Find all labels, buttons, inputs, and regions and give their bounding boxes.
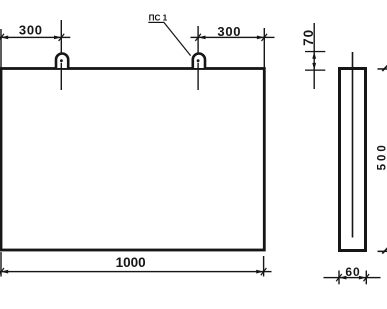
slash right of dim 300 right [262, 34, 268, 41]
slash right of dim 60 [364, 274, 370, 281]
extension line top-right corner [264, 28, 265, 68]
dim 70 arrow up [312, 52, 316, 59]
label ПС 1 underline [148, 22, 164, 23]
dim 70 tick top [305, 51, 325, 52]
slash left of dim 300 left [0, 34, 4, 41]
extension line top-left corner [0, 29, 1, 68]
svg-text:500: 500 [376, 142, 387, 170]
arrow left of dim 60 [339, 276, 346, 280]
dimension line 1000 [0, 271, 272, 272]
svg-text:300: 300 [19, 23, 43, 38]
dim 60 extension right [366, 271, 367, 285]
lifting loop ПС1 left [56, 53, 68, 68]
slash right of dim 1000 [261, 268, 267, 275]
leader line from ПС 1 to right loop [164, 22, 191, 55]
arrow right of dim 300 left [54, 36, 61, 40]
slash left of dim 60 [336, 274, 342, 281]
svg-text:300: 300 [217, 24, 241, 39]
slash left of dim 300 right [195, 34, 201, 41]
svg-text:1000: 1000 [116, 255, 146, 270]
dim 70 arrow down [312, 63, 316, 70]
dim 500 slash bottom [382, 248, 387, 254]
dim 500 extension bottom [378, 251, 387, 253]
loop right center dot [197, 59, 200, 62]
arrow right of dim 300 right [257, 36, 264, 40]
arrow left of dim 300 left [1, 36, 8, 40]
loop right center line upper [197, 26, 198, 55]
extension line bottom-left [0, 252, 1, 277]
extension line bottom-right [263, 256, 264, 277]
dimension line 300 left [0, 37, 70, 38]
panel side view outline [340, 69, 366, 251]
dim 70 tick bottom [305, 70, 325, 71]
slash right of dim 300 left [59, 34, 65, 41]
lifting loop ПС1 right [193, 54, 205, 68]
svg-text:ПС 1: ПС 1 [149, 13, 168, 22]
dim 500 slash top [382, 65, 387, 71]
loop left center line lower [61, 63, 62, 90]
panel front view outline [1, 69, 264, 251]
dim 500 extension top [378, 68, 387, 70]
svg-text:60: 60 [345, 265, 360, 279]
dim 60 extension left [338, 271, 339, 285]
dim 70 vertical line [314, 23, 315, 89]
svg-text:70: 70 [301, 29, 316, 46]
dimension line 60 [324, 277, 381, 278]
loop edge line in side view [352, 52, 354, 238]
arrow right of dim 1000 [256, 270, 263, 274]
arrow left of dim 1000 [1, 270, 8, 274]
loop left center dot [60, 59, 63, 62]
slash left of dim 1000 [0, 268, 4, 275]
loop right center line lower [197, 63, 198, 90]
dimension line 300 right [191, 37, 275, 38]
arrow left of dim 300 right [198, 36, 205, 40]
arrow right of dim 60 [359, 276, 366, 280]
loop left center line upper [61, 20, 62, 55]
